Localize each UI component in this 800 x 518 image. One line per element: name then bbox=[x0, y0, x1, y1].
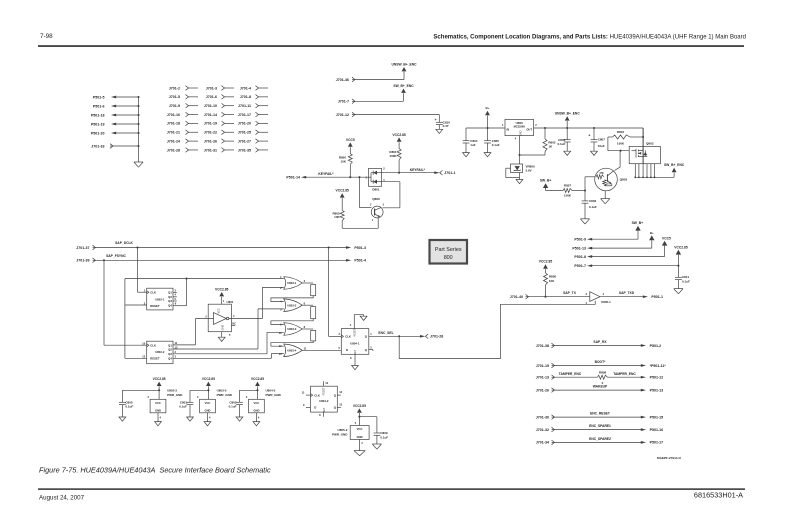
svg-text:U804-3: U804-3 bbox=[266, 389, 276, 393]
connector J701-3 (no connect) bbox=[206, 86, 234, 91]
terminal P501-13 bbox=[572, 246, 592, 250]
svg-text:J701-32: J701-32 bbox=[536, 428, 549, 432]
diode pair D801 bbox=[365, 167, 385, 192]
ground U804-1 reset bbox=[360, 316, 367, 320]
svg-text:10K: 10K bbox=[340, 159, 346, 163]
svg-text:J701-8: J701-8 bbox=[240, 95, 251, 99]
svg-text:J701-12: J701-12 bbox=[336, 113, 349, 117]
connector J701-31 (no connect) bbox=[204, 148, 234, 153]
svg-text:Schematics, Component Location: Schematics, Component Location Diagrams,… bbox=[433, 35, 746, 41]
svg-text:0.47: 0.47 bbox=[443, 124, 449, 128]
svg-text:C811: C811 bbox=[682, 275, 689, 279]
connector J701-34 / net ENC_SPARE2 / terminal P501-17 bbox=[536, 437, 663, 445]
svg-text:U805-2: U805-2 bbox=[338, 428, 348, 432]
svg-text:VCC2.85: VCC2.85 bbox=[539, 260, 553, 264]
svg-text:0.1uF: 0.1uF bbox=[492, 143, 500, 147]
svg-text:TAMPER_ENC: TAMPER_ENC bbox=[613, 372, 636, 376]
svg-text:0.1uF: 0.1uF bbox=[557, 142, 565, 146]
svg-text:B+: B+ bbox=[486, 106, 490, 110]
svg-text:OUT: OUT bbox=[526, 127, 532, 131]
connector J701-38 / net SAP_RX / terminal P501-2 bbox=[536, 340, 661, 348]
svg-text:BOOT*: BOOT* bbox=[595, 360, 607, 364]
svg-text:J701-19: J701-19 bbox=[204, 122, 217, 126]
svg-text:GND: GND bbox=[253, 408, 259, 412]
ground C807 bbox=[591, 151, 598, 155]
regulator U800 MC33269 bbox=[502, 119, 537, 140]
svg-text:PWR_GND: PWR_GND bbox=[217, 393, 233, 397]
svg-text:6816533H01-A: 6816533H01-A bbox=[694, 491, 743, 500]
wire U803-2 output loop bbox=[271, 305, 316, 324]
wire U804-1 Qbar stub bbox=[369, 350, 373, 352]
svg-text:P501-14: P501-14 bbox=[286, 175, 300, 179]
connector J701-40 bbox=[510, 294, 529, 299]
svg-text:J701-34: J701-34 bbox=[536, 441, 549, 445]
svg-text:J701-6: J701-6 bbox=[206, 95, 217, 99]
svg-text:ENC_SPARE1: ENC_SPARE1 bbox=[589, 424, 611, 428]
terminal P501-14 bbox=[286, 175, 306, 179]
svg-text:ENC_SEL: ENC_SEL bbox=[378, 331, 393, 335]
svg-text:C809: C809 bbox=[380, 431, 388, 435]
net SAP_DCLK bbox=[96, 241, 347, 248]
svg-text:J701-15: J701-15 bbox=[536, 364, 549, 368]
svg-text:U803-4: U803-4 bbox=[287, 349, 297, 353]
svg-text:10uF: 10uF bbox=[598, 144, 605, 148]
svg-text:Q4: Q4 bbox=[168, 304, 172, 308]
wire P501-13 to B+ bbox=[592, 240, 652, 248]
svg-text:0.1uF: 0.1uF bbox=[125, 405, 133, 409]
svg-text:PWR_GND: PWR_GND bbox=[266, 393, 282, 397]
net B+ input rail bbox=[466, 127, 505, 129]
svg-text:VCC2.85: VCC2.85 bbox=[336, 189, 350, 193]
svg-text:VCC2.85: VCC2.85 bbox=[353, 404, 366, 408]
power VCC5 for R800 bbox=[346, 138, 355, 154]
svg-text:J701-38: J701-38 bbox=[536, 344, 549, 348]
net KEYFAIL* output wire bbox=[382, 168, 436, 174]
svg-text:J701-37: J701-37 bbox=[76, 246, 89, 250]
svg-text:RESET: RESET bbox=[354, 328, 357, 337]
svg-text:J701-16: J701-16 bbox=[167, 113, 180, 117]
buffer U801 bbox=[205, 300, 236, 337]
svg-text:MAEPF-27914-O: MAEPF-27914-O bbox=[657, 456, 681, 460]
svg-text:+: + bbox=[588, 134, 590, 138]
svg-text:U803-3: U803-3 bbox=[287, 327, 297, 331]
svg-text:Q4: Q4 bbox=[168, 357, 172, 361]
connector J701-30 / net ENC_RESET / terminal P501-15 bbox=[536, 412, 663, 420]
ground C805 bbox=[484, 153, 491, 157]
svg-text:VCC2.85: VCC2.85 bbox=[202, 377, 215, 381]
svg-text:SAP_FSYNC: SAP_FSYNC bbox=[106, 254, 126, 258]
svg-text:0.1uF: 0.1uF bbox=[179, 405, 187, 409]
gate U803-4 bbox=[279, 344, 307, 357]
svg-text:J701-40: J701-40 bbox=[510, 295, 523, 299]
svg-text:J701-35: J701-35 bbox=[238, 148, 251, 152]
ground C809 bbox=[372, 444, 381, 449]
wire R804 to gate node bbox=[608, 137, 629, 152]
svg-text:SET: SET bbox=[354, 349, 357, 354]
gate U803-1 bbox=[280, 275, 305, 290]
ground left bus bbox=[134, 162, 143, 167]
footer part number bbox=[694, 491, 743, 500]
svg-text:VCC2.85: VCC2.85 bbox=[392, 133, 406, 137]
power UNSW_B+_ENC bbox=[391, 62, 417, 71]
svg-text:CLK: CLK bbox=[150, 290, 156, 294]
svg-text:SET: SET bbox=[323, 407, 326, 412]
wire J701-7 to SW_B+_ENC bbox=[355, 93, 404, 101]
terminal P501-5 bbox=[93, 95, 140, 99]
power VCC2.85 for R806 bbox=[539, 260, 553, 273]
wire R802 to ground node bbox=[520, 154, 546, 156]
connector J701-11 (no connect) bbox=[238, 103, 268, 108]
wire Q803 collector bbox=[615, 151, 621, 171]
svg-text:10K: 10K bbox=[549, 279, 555, 283]
svg-text:100K: 100K bbox=[564, 193, 572, 197]
connector J701-32 / net ENC_SPARE1 / terminal P501-16 bbox=[536, 424, 663, 432]
wire rail to Q802 drain bbox=[642, 128, 644, 146]
figure caption bbox=[39, 465, 271, 474]
resistor R806 10K bbox=[544, 273, 557, 297]
svg-text:VCC2.85: VCC2.85 bbox=[251, 377, 264, 381]
svg-text:SW_B+_ENC: SW_B+_ENC bbox=[664, 163, 685, 167]
power VCC2.85 for U801 bbox=[215, 287, 229, 304]
svg-text:J701-24: J701-24 bbox=[167, 139, 180, 143]
connector J701-28 (no connect) bbox=[167, 148, 198, 153]
wire U803-3 output loop bbox=[271, 329, 316, 346]
net SAP_FSYNC bbox=[96, 254, 347, 261]
ground C810 bbox=[436, 129, 443, 133]
ground C806 bbox=[564, 151, 571, 155]
svg-text:800: 800 bbox=[444, 255, 453, 261]
page header left page number bbox=[40, 33, 53, 40]
svg-text:0.1uF: 0.1uF bbox=[229, 405, 237, 409]
power VCC2.85 for R805 bbox=[336, 189, 350, 211]
svg-text:P501-2: P501-2 bbox=[650, 344, 662, 348]
svg-text:P501-15: P501-15 bbox=[650, 415, 664, 419]
svg-text:J701-33: J701-33 bbox=[91, 144, 104, 148]
svg-text:J701-10: J701-10 bbox=[204, 104, 217, 108]
connector J701-27 (no connect) bbox=[238, 139, 268, 144]
ground U805-2 bbox=[354, 451, 365, 456]
terminal P501-19 bbox=[91, 122, 140, 126]
power SW_B+ for R807 bbox=[540, 179, 552, 191]
svg-text:RESET: RESET bbox=[150, 304, 160, 308]
svg-text:D: D bbox=[346, 348, 348, 352]
svg-text:ENC_SPARE2: ENC_SPARE2 bbox=[589, 437, 611, 441]
terminal P501-6 bbox=[93, 104, 140, 108]
svg-text:VCC: VCC bbox=[357, 427, 363, 431]
svg-text:P501-8: P501-8 bbox=[574, 255, 586, 259]
connector J701-9 (no connect) bbox=[169, 103, 198, 108]
svg-text:P501-18: P501-18 bbox=[91, 113, 105, 117]
net ENC_SEL bbox=[369, 331, 421, 337]
svg-text:P501-1: P501-1 bbox=[651, 295, 663, 299]
svg-text:Q800: Q800 bbox=[372, 197, 380, 201]
svg-text:CLK: CLK bbox=[150, 343, 156, 347]
svg-text:U805-1: U805-1 bbox=[601, 300, 611, 304]
svg-text:U802-3: U802-3 bbox=[167, 389, 177, 393]
terminal P501-8 bbox=[574, 255, 592, 259]
terminal P501-18 bbox=[91, 113, 140, 117]
svg-text:P501-13: P501-13 bbox=[650, 388, 664, 392]
svg-text:J701-25: J701-25 bbox=[238, 131, 251, 135]
resistor R801 100K bbox=[389, 149, 401, 173]
svg-text:August 24, 2007: August 24, 2007 bbox=[39, 494, 85, 501]
drawing number MAEPF-27914-O bbox=[657, 456, 681, 460]
svg-text:J701-27: J701-27 bbox=[238, 139, 251, 143]
svg-text:Q803: Q803 bbox=[620, 178, 628, 182]
net counter reset bbox=[125, 278, 284, 359]
svg-text:PWR_GND: PWR_GND bbox=[167, 393, 183, 397]
svg-text:J701-17: J701-17 bbox=[238, 113, 251, 117]
svg-text:J701-20: J701-20 bbox=[238, 122, 251, 126]
power VCC5 for P501-8 bbox=[662, 236, 671, 245]
svg-text:IN: IN bbox=[507, 127, 510, 131]
svg-text:SAP_TXD: SAP_TXD bbox=[619, 291, 635, 295]
wire ground bus bbox=[138, 97, 140, 162]
capacitor C809 0.1uF bbox=[359, 417, 388, 444]
svg-text:PWR_GND: PWR_GND bbox=[332, 433, 348, 437]
ground C811 bbox=[674, 289, 683, 294]
svg-text:R806: R806 bbox=[549, 274, 557, 278]
wire U802-2 Q4 to gate U803-4 bbox=[173, 353, 284, 358]
svg-text:U803-2: U803-2 bbox=[287, 303, 297, 307]
svg-text:U802-2: U802-2 bbox=[155, 350, 165, 354]
connector J701-1 bbox=[434, 170, 455, 175]
svg-text:ENC_RESET: ENC_RESET bbox=[590, 412, 610, 416]
svg-text:P501-5: P501-5 bbox=[93, 95, 105, 99]
svg-text:VCC: VCC bbox=[254, 401, 260, 405]
svg-text:GND: GND bbox=[222, 325, 225, 331]
svg-text:Part Series: Part Series bbox=[435, 247, 462, 253]
svg-text:J701-22: J701-22 bbox=[204, 131, 217, 135]
counter U802-1 bbox=[144, 288, 177, 310]
connector J701-37 bbox=[76, 245, 95, 250]
svg-text:VCC5: VCC5 bbox=[346, 138, 355, 142]
connector J701-19 (no connect) bbox=[204, 121, 234, 126]
svg-text:U800: U800 bbox=[516, 121, 524, 125]
resistor R807 100K bbox=[546, 184, 586, 198]
wire SAP_DCLK to U802-1 clock bbox=[138, 248, 147, 293]
wire R807 to Q803 base bbox=[585, 177, 595, 191]
svg-text:P501-7: P501-7 bbox=[574, 264, 586, 268]
wire U802-2 Q1 to U801 input bbox=[173, 319, 214, 345]
transistor Q803 bbox=[595, 168, 628, 191]
svg-text:0.1uF: 0.1uF bbox=[589, 205, 597, 209]
svg-text:R808: R808 bbox=[599, 371, 607, 375]
terminal P501-9 bbox=[574, 238, 592, 242]
wire source bus to SW_B+_ENC bbox=[635, 173, 674, 178]
svg-text:UNSW_B+_ENC: UNSW_B+_ENC bbox=[391, 62, 417, 66]
connector J701-2 (no connect) bbox=[169, 86, 198, 91]
svg-text:Q2: Q2 bbox=[168, 347, 172, 351]
wire U800 ground pin bbox=[518, 136, 520, 164]
wire Q803 emitter bbox=[604, 191, 606, 199]
svg-text:Q802: Q802 bbox=[646, 142, 654, 146]
footer date bbox=[39, 494, 85, 501]
svg-text:100K: 100K bbox=[617, 142, 625, 146]
wire U802-2 Q2 to gate U803-2 bbox=[173, 309, 284, 349]
ground U804-1 set bbox=[352, 366, 359, 370]
svg-text:J701-28: J701-28 bbox=[167, 148, 180, 152]
svg-text:J701-7: J701-7 bbox=[338, 100, 349, 104]
svg-text:B+: B+ bbox=[650, 231, 654, 235]
svg-text:VCC: VCC bbox=[205, 401, 211, 405]
svg-text:VCC2.85: VCC2.85 bbox=[215, 287, 229, 291]
svg-text:J701-36: J701-36 bbox=[336, 78, 349, 82]
connector J701-17 (no connect) bbox=[238, 112, 268, 117]
svg-text:Figure 7-75. HUE4039A/HUE4043A: Figure 7-75. HUE4039A/HUE4043A Secure In… bbox=[39, 465, 271, 474]
svg-text:P501-16: P501-16 bbox=[650, 428, 664, 432]
svg-text:1uF: 1uF bbox=[470, 143, 476, 147]
wire Q802 drain through box bbox=[642, 146, 644, 163]
resistor R802 1K bbox=[543, 128, 556, 155]
wire SAP_FSYNC to U802-2 clock bbox=[104, 260, 147, 345]
wire U801 ground bbox=[221, 332, 223, 338]
terminal P501-1 bbox=[643, 295, 663, 299]
note box Part Series 800 bbox=[430, 240, 468, 264]
svg-text:U804-2: U804-2 bbox=[319, 399, 329, 403]
svg-text:J701-18: J701-18 bbox=[167, 122, 180, 126]
svg-text:TAMPER_ENC: TAMPER_ENC bbox=[559, 372, 582, 376]
header rule bbox=[38, 45, 744, 47]
svg-text:P501-13: P501-13 bbox=[572, 246, 586, 250]
connector J701-16 (no connect) bbox=[167, 112, 198, 117]
connector J701-22 (no connect) bbox=[204, 130, 234, 135]
svg-text:J701-14: J701-14 bbox=[204, 113, 217, 117]
svg-text:47K: 47K bbox=[599, 172, 604, 175]
net KEYFAIL* left wire bbox=[306, 172, 369, 178]
connector J701-8 (no connect) bbox=[240, 95, 268, 100]
svg-text:UNSW_B+_ENC: UNSW_B+_ENC bbox=[555, 112, 581, 116]
svg-text:P501-19: P501-19 bbox=[91, 122, 105, 126]
wire ENC_SEL feedback bbox=[399, 301, 595, 359]
svg-text:VCC2.85: VCC2.85 bbox=[674, 245, 688, 249]
connector J701-20 (no connect) bbox=[238, 121, 268, 126]
wire U801 output to gate U803-1 bbox=[229, 287, 284, 318]
capacitor C811 0.1uF bbox=[675, 266, 690, 289]
wire U805-2 ground bbox=[360, 439, 364, 450]
transistor Q802 bbox=[629, 142, 660, 164]
svg-text:MC33269: MC33269 bbox=[514, 124, 526, 128]
power B+ input bbox=[485, 106, 490, 128]
svg-text:KEYFAIL*: KEYFAIL* bbox=[410, 168, 426, 172]
svg-text:P501-4: P501-4 bbox=[354, 259, 366, 263]
svg-text:J701-11: J701-11 bbox=[238, 104, 251, 108]
terminal P501-20 bbox=[91, 131, 140, 135]
gate U803-3 bbox=[279, 323, 306, 336]
wire KEYFAIL to Q800 base bbox=[359, 177, 371, 207]
svg-text:VCC2.85: VCC2.85 bbox=[153, 377, 166, 381]
svg-text:GND: GND bbox=[155, 408, 161, 412]
power block U802-3 bbox=[119, 377, 183, 426]
svg-text:Q3: Q3 bbox=[168, 352, 172, 356]
connector J701-15 / net BOOT* / terminal P501-11 bbox=[536, 360, 667, 368]
svg-text:KEYFAIL*: KEYFAIL* bbox=[318, 172, 334, 176]
svg-text:C807: C807 bbox=[598, 138, 606, 142]
wire U803-4 output to U804-1 D bbox=[302, 349, 341, 351]
svg-text:D: D bbox=[314, 406, 316, 410]
connector J701-36 bbox=[336, 77, 355, 82]
connector J701-12 bbox=[336, 112, 355, 117]
svg-text:CLK: CLK bbox=[345, 335, 351, 339]
svg-text:SW_B+: SW_B+ bbox=[632, 221, 644, 225]
wire P501-8 to VCC5 bbox=[592, 246, 665, 257]
connector J701-26 (no connect) bbox=[204, 139, 234, 144]
svg-text:+: + bbox=[435, 118, 437, 122]
wire SAP_DCLK to U804-1 clock bbox=[329, 248, 342, 337]
buffer U805-1 bbox=[586, 292, 612, 305]
power block U804-3 bbox=[229, 377, 282, 426]
terminal P501-7 bbox=[574, 264, 592, 268]
connector J701-7 bbox=[338, 99, 355, 104]
capacitor C805 0.1uF bbox=[484, 128, 500, 153]
connector J701-5 (no connect) bbox=[169, 95, 198, 100]
svg-text:U802-1: U802-1 bbox=[155, 298, 165, 302]
connector J701-4 (no connect) bbox=[240, 86, 268, 91]
wire U802-1 Q4 feedback bbox=[173, 279, 187, 306]
svg-text:NC: NC bbox=[232, 322, 236, 325]
svg-text:SAP_TX: SAP_TX bbox=[563, 291, 577, 295]
svg-text:J701-13: J701-13 bbox=[536, 376, 549, 380]
ground VR800 bbox=[516, 180, 523, 184]
svg-text:J701-26: J701-26 bbox=[536, 388, 549, 392]
svg-text:J701-39: J701-39 bbox=[76, 259, 89, 263]
svg-text:J701-30: J701-30 bbox=[536, 415, 549, 419]
connector J701-13 / resistor R808 0 ohm / terminal P501-12 bbox=[536, 371, 663, 385]
capacitor C807 10uF bbox=[588, 128, 605, 151]
svg-text:WAKEUP: WAKEUP bbox=[593, 385, 608, 389]
terminal P501-3 bbox=[346, 246, 366, 250]
svg-text:P501-17: P501-17 bbox=[650, 441, 664, 445]
svg-text:P501-20: P501-20 bbox=[91, 131, 105, 135]
connector J701-21 (no connect) bbox=[167, 130, 198, 135]
svg-text:R804: R804 bbox=[617, 130, 625, 134]
svg-text:VCC: VCC bbox=[218, 308, 221, 313]
flip-flop U804-2 (unused) bbox=[302, 381, 343, 417]
ground U801 bbox=[218, 337, 225, 341]
ground C803 bbox=[580, 219, 589, 224]
connector J701-26 / net WAKEUP / terminal P501-14 bbox=[536, 385, 663, 393]
svg-text:J701-26: J701-26 bbox=[204, 139, 217, 143]
svg-text:*P501-11*: *P501-11* bbox=[650, 364, 667, 368]
wire J701-12 to C810 bbox=[355, 115, 439, 123]
svg-text:SAP_DCLK: SAP_DCLK bbox=[115, 241, 133, 245]
svg-text:J701-5: J701-5 bbox=[169, 95, 180, 99]
capacitor C803 0.1uF bbox=[582, 191, 597, 219]
wire P501-9 to SW_B+ bbox=[592, 231, 638, 240]
svg-text:J701-4: J701-4 bbox=[240, 86, 251, 90]
svg-text:R807: R807 bbox=[564, 184, 572, 188]
svg-text:7-98: 7-98 bbox=[40, 33, 53, 40]
svg-text:U803-5: U803-5 bbox=[217, 389, 227, 393]
wire VR800 anode loop bbox=[506, 168, 520, 179]
svg-text:D801: D801 bbox=[372, 188, 380, 192]
transistor Q800 bbox=[370, 197, 385, 222]
net regulator output rail bbox=[534, 127, 644, 129]
wire Q800 emitter bbox=[342, 218, 378, 229]
power SW_B+_ENC source bbox=[664, 163, 685, 172]
wire U804-1 reset to ground bbox=[354, 315, 363, 329]
svg-text:RESET: RESET bbox=[150, 357, 160, 361]
connector J701-10 (no connect) bbox=[204, 103, 234, 108]
ground C804 bbox=[463, 153, 470, 157]
svg-text:SW_B+_ENC: SW_B+_ENC bbox=[393, 84, 414, 88]
resistor R800 10K bbox=[339, 154, 352, 178]
zener diode VR800 5.6V bbox=[511, 164, 536, 173]
svg-text:RESET: RESET bbox=[323, 387, 326, 396]
flip-flop U804-1 bbox=[339, 323, 373, 360]
connector J701-39 bbox=[76, 258, 95, 263]
svg-text:J701-3: J701-3 bbox=[206, 86, 217, 90]
